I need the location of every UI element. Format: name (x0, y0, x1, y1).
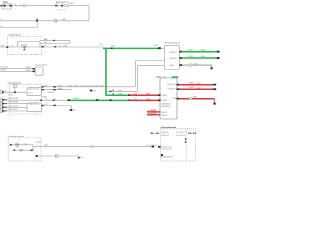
svg-text:F30: F30 (55, 3, 58, 5)
svg-text:2.0 GN: 2.0 GN (188, 56, 194, 58)
svg-text:2.0 NW C0603-1 2.0 NW S2035 2.: 2.0 NW C0603-1 2.0 NW S2035 2.0 NW C0603 (66, 85, 104, 87)
svg-text:C0035 2.0: C0035 2.0 (57, 85, 63, 87)
svg-text:60A F1: 60A F1 (69, 2, 74, 5)
svg-text:C0604: C0604 (110, 46, 115, 48)
svg-text:B86: B86 (44, 39, 47, 41)
svg-text:C0013: C0013 (196, 88, 201, 90)
svg-text:C0013: C0013 (196, 83, 201, 85)
svg-text:C0576-4: C0576-4 (0, 70, 6, 72)
svg-text:C0036 0.5: C0036 0.5 (57, 88, 63, 90)
svg-text:C2BW-30: C2BW-30 (150, 113, 157, 115)
svg-text:C0559 1.0 N: C0559 1.0 N (161, 135, 170, 137)
svg-text:C2BW-A 14: C2BW-A 14 (167, 83, 176, 86)
svg-text:Fuel pump relay 2: Fuel pump relay 2 (28, 103, 39, 106)
svg-text:Fuel pump relay: Fuel pump relay (28, 88, 39, 91)
svg-text:Pump: Pump (24, 143, 28, 145)
svg-text:C2BW-A 16: C2BW-A 16 (167, 88, 176, 91)
svg-text:C0603 30: C0603 30 (42, 96, 47, 98)
svg-text:E3 PUMP GROUND: E3 PUMP GROUND (161, 157, 174, 159)
svg-text:C0603-12 0.5: C0603-12 0.5 (47, 92, 55, 94)
svg-text:S100: S100 (36, 19, 39, 21)
svg-text:B85: B85 (44, 104, 48, 106)
svg-text:Junction box engine compt: Junction box engine compt (8, 34, 21, 37)
svg-text:2.5 N: 2.5 N (9, 46, 14, 48)
svg-text:C2BW: C2BW (146, 99, 150, 101)
svg-text:0.5 NW: 0.5 NW (117, 90, 122, 92)
svg-text:C0581-1: C0581-1 (169, 65, 174, 67)
svg-text:C2BW-A 30 (2): C2BW-A 30 (2) (161, 105, 171, 108)
svg-text:0.5 UG 18 C2: 0.5 UG 18 C2 (176, 132, 186, 134)
svg-text:2.0 NW: 2.0 NW (118, 94, 123, 96)
svg-text:2.0 R: 2.0 R (133, 94, 138, 96)
svg-text:Fuel pump relay mod: Fuel pump relay mod (167, 42, 180, 45)
svg-text:C2BW-9: C2BW-9 (162, 95, 168, 97)
svg-text:30: 30 (0, 19, 2, 21)
svg-text:2.0 GN: 2.0 GN (188, 50, 194, 52)
svg-text:B85: B85 (44, 42, 47, 44)
svg-text:87: 87 (44, 45, 46, 47)
svg-text:0.5 UN 18 C2: 0.5 UN 18 C2 (176, 135, 186, 137)
svg-text:C2BW-28: C2BW-28 (150, 110, 156, 112)
svg-text:2.0 GN C: 2.0 GN C (72, 98, 80, 100)
svg-text:C0582-7: C0582-7 (26, 67, 32, 69)
svg-text:1.5 UY 13 C05: 1.5 UY 13 C05 (146, 145, 157, 147)
svg-text:2.0 R: 2.0 R (133, 99, 138, 101)
svg-text:Fuel pump control module: Fuel pump control module (161, 126, 177, 129)
svg-text:Rear junction box: Rear junction box (35, 64, 47, 67)
svg-text:C0191-3 0.5 NW: C0191-3 0.5 NW (8, 98, 18, 100)
svg-text:C0581-3 2.0: C0581-3 2.0 (169, 58, 177, 60)
svg-text:C057: C057 (53, 99, 56, 101)
svg-text:C12: C12 (4, 91, 7, 93)
svg-text:C0014: C0014 (200, 56, 205, 58)
svg-text:C0581-5 2.0: C0581-5 2.0 (169, 52, 177, 54)
svg-text:2.5 NG: 2.5 NG (63, 46, 68, 48)
svg-text:C0576-1 2.5: C0576-1 2.5 (0, 67, 8, 69)
svg-text:control: control (162, 76, 168, 79)
svg-text:2.5 G: 2.5 G (99, 44, 103, 46)
svg-text:C06: C06 (112, 93, 114, 95)
svg-text:S20: S20 (93, 90, 96, 92)
svg-text:. . . .: . . . . (29, 122, 35, 124)
svg-text:C2BW: C2BW (146, 94, 150, 96)
svg-text:4.0 NR: 4.0 NR (62, 19, 67, 21)
svg-text:0.5 RG 1: 0.5 RG 1 (189, 82, 195, 84)
svg-text:C0191-2 0.5 GK: C0191-2 0.5 GK (8, 105, 19, 107)
svg-text:C0558 2.0 U: C0558 2.0 U (161, 132, 170, 134)
svg-text:E5 1: E5 1 (73, 110, 77, 112)
svg-text:87: 87 (45, 99, 47, 101)
svg-text:C2BW-A 28 (2): C2BW-A 28 (2) (161, 103, 171, 106)
svg-text:C0555-4 1.5 B: C0555-4 1.5 B (161, 148, 172, 150)
svg-text:10A F2: 10A F2 (193, 96, 198, 99)
svg-text:C2BW-2: C2BW-2 (162, 100, 168, 102)
svg-text:FL7: FL7 (62, 3, 65, 5)
svg-text:C0603 13: C0603 13 (161, 112, 167, 114)
svg-text:C003: C003 (44, 86, 48, 88)
svg-text:C2BW: C2BW (172, 98, 176, 100)
svg-text:C05: C05 (58, 45, 60, 47)
svg-text:C0191-1 0.5 B 1: C0191-1 0.5 B 1 (8, 109, 18, 111)
svg-text:C0045: C0045 (0, 46, 4, 48)
svg-text:Fuel pump relay module: Fuel pump relay module (8, 82, 22, 85)
svg-text:2.0 GN: 2.0 GN (153, 45, 159, 47)
svg-text:C0582-9: C0582-9 (26, 70, 32, 72)
svg-text:C0013: C0013 (200, 50, 205, 52)
svg-text:0.5 RN 1: 0.5 RN 1 (189, 87, 195, 89)
svg-text:2.0 B 1: 2.0 B 1 (193, 64, 198, 66)
svg-text:C0555-2: C0555-2 (36, 142, 42, 144)
svg-text:C06: C06 (112, 90, 114, 92)
svg-text:S-21: S-21 (80, 157, 83, 159)
svg-text:4.0: 4.0 (13, 4, 16, 6)
svg-text:C0603 26: C0603 26 (161, 115, 167, 117)
svg-text:0.5 GN: 0.5 GN (8, 94, 14, 96)
svg-text:C0191-5 0.5 GW: C0191-5 0.5 GW (8, 102, 18, 104)
svg-text:30: 30 (0, 26, 2, 28)
svg-text:Fuel delivery module: Fuel delivery module (8, 135, 24, 138)
